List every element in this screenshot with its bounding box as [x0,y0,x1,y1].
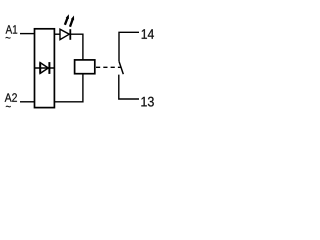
diode V1 cathode bar [48,62,50,74]
mechanical link (dashed) coil to contact [96,66,121,68]
diode V1 anode base bar [39,62,41,73]
AC symbol under A1 [6,37,11,39]
terminal label 13 [141,97,153,107]
wire contact 14 [119,32,139,61]
contact blade (NO contact) [119,61,123,74]
terminal label A1 [6,25,18,33]
LED triangle [60,29,69,39]
wire A2 to input block [20,101,35,103]
relay coil K1 [75,60,95,74]
wire contact 13 [119,75,139,99]
input block rectangle [35,29,55,108]
diode V1 triangle [40,63,48,74]
LED arrow 1 [64,14,69,25]
terminal label A2 [5,93,17,102]
diode V1 axis wire [35,67,55,69]
wire input block to LED [54,33,60,35]
LED cathode bar [69,29,71,40]
AC symbol under A2 [6,106,11,108]
wire A1 to input block [20,33,35,35]
wire LED to relay coil top [70,34,83,60]
terminal label 14 [142,29,154,38]
wire relay coil bottom to input block [54,74,83,102]
LED arrow 2 [69,16,74,28]
